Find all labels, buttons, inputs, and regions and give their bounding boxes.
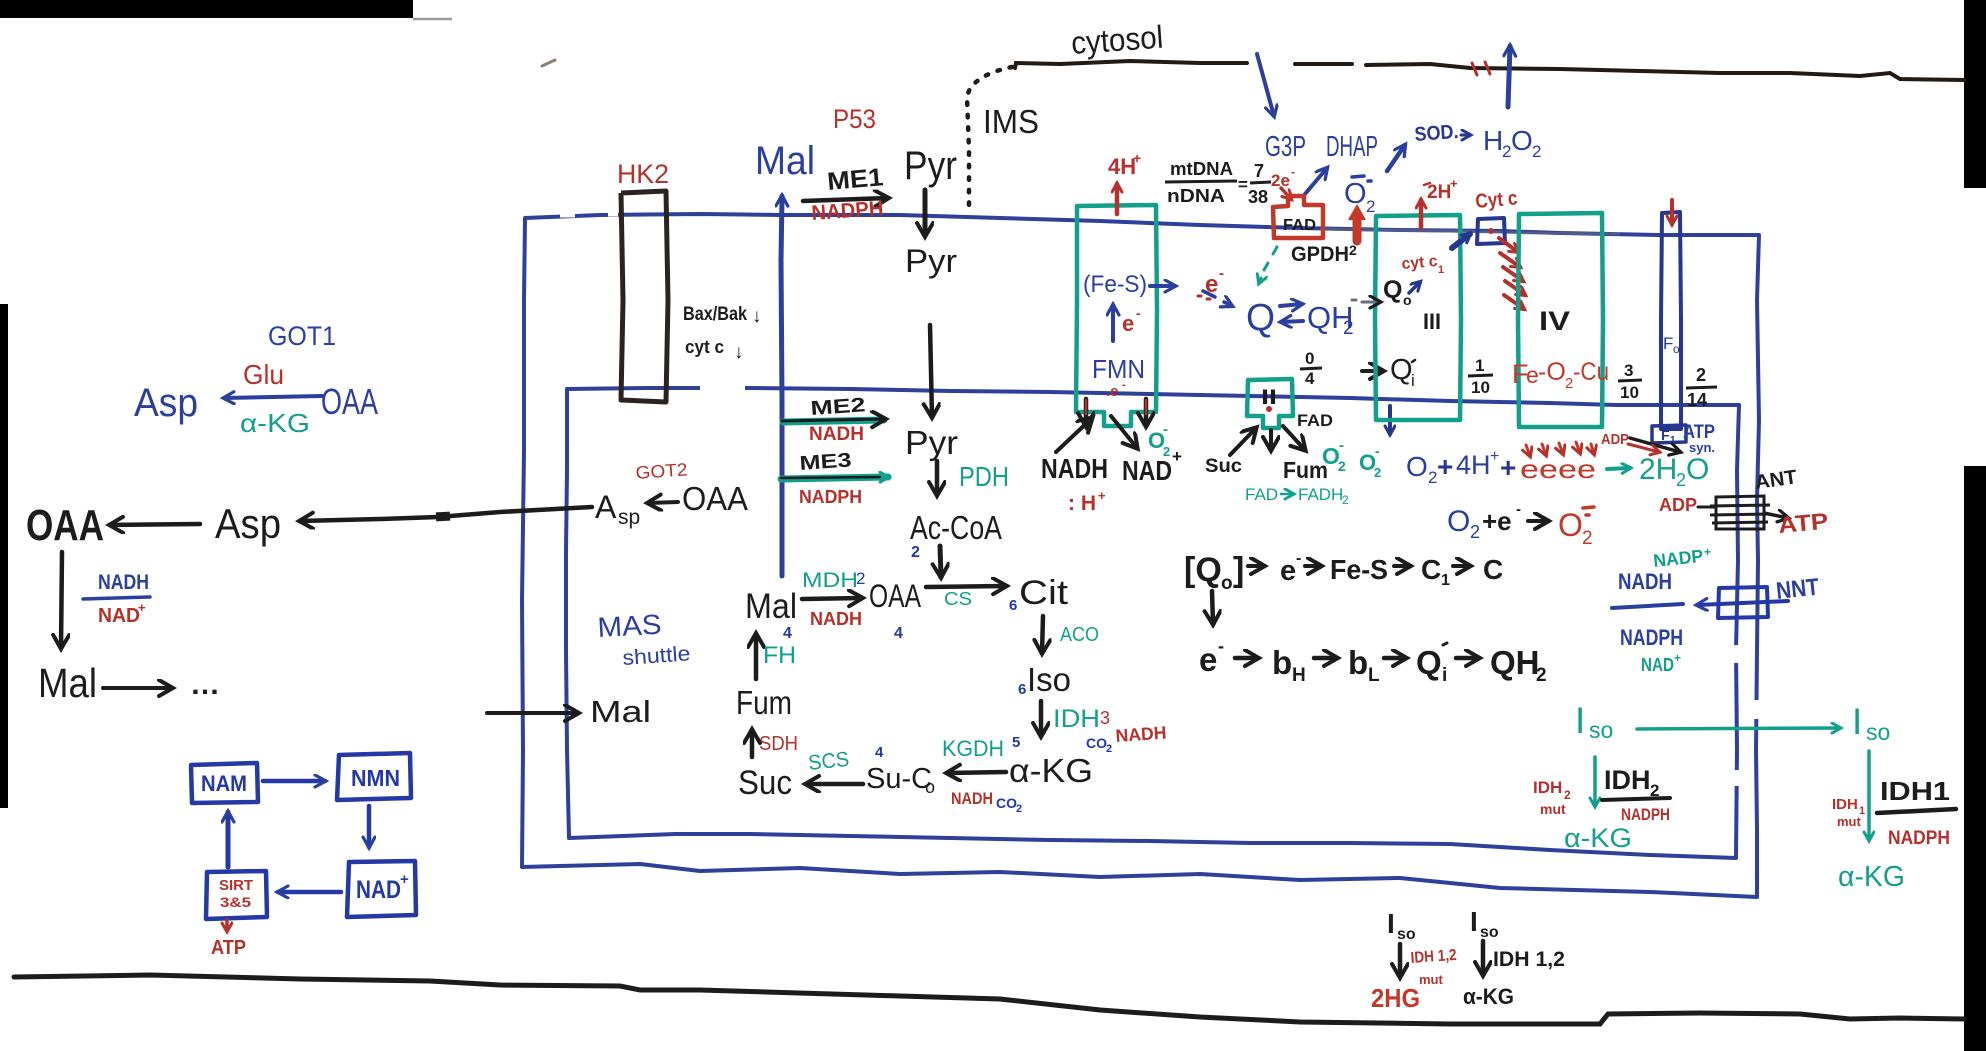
svg-text:2: 2 xyxy=(1536,665,1547,686)
svg-text:α-KG: α-KG xyxy=(1564,823,1632,853)
NAM box xyxy=(191,763,258,803)
svg-text:SDH: SDH xyxy=(759,733,798,755)
svg-text:+: + xyxy=(1450,176,1458,191)
svg-text:-: - xyxy=(1218,636,1224,656)
svg-text:2: 2 xyxy=(1696,365,1706,385)
IDH1 divider xyxy=(1877,809,1956,813)
svg-text:Pyr: Pyr xyxy=(904,144,957,188)
svg-text:nDNA: nDNA xyxy=(1167,186,1225,206)
ME1 arrow xyxy=(803,198,888,201)
svg-text:2H: 2H xyxy=(1427,182,1451,203)
svg-text:I: I xyxy=(1852,701,1862,742)
svg-text:Fum: Fum xyxy=(736,684,792,721)
svg-text:]: ] xyxy=(1233,551,1244,589)
svg-text:38: 38 xyxy=(1248,187,1268,207)
svg-text:IDH 1,2: IDH 1,2 xyxy=(1493,948,1565,971)
svg-text:1: 1 xyxy=(1475,356,1484,375)
NNT arrow xyxy=(1697,601,1788,605)
svg-text:NADPH: NADPH xyxy=(1888,828,1950,849)
svg-text:IV: IV xyxy=(1539,306,1570,336)
svg-text:NADH: NADH xyxy=(951,789,993,808)
inner blue membrane (IMM inner leaflet) xyxy=(566,388,1739,858)
svg-text:OAA: OAA xyxy=(321,381,378,422)
svg-text:e: e xyxy=(1199,641,1217,678)
svg-text:3&5: 3&5 xyxy=(220,894,251,910)
[Qo] electron chain xyxy=(1184,550,1503,594)
black crop bar left edge xyxy=(0,304,8,808)
gray smear on membrane line xyxy=(1320,229,1620,234)
svg-text:2: 2 xyxy=(1338,458,1346,474)
svg-text:NADPH: NADPH xyxy=(1620,625,1683,650)
svg-text:2: 2 xyxy=(911,544,920,561)
red arrow 2e- to box xyxy=(1281,188,1291,199)
svg-text:+e: +e xyxy=(1482,506,1512,536)
svg-text:Pyr: Pyr xyxy=(905,243,957,279)
mtDNA/nDNA fraction xyxy=(1165,159,1271,207)
MDH2 arrow xyxy=(802,598,862,599)
cyt c box blue xyxy=(1477,218,1505,244)
svg-text:b: b xyxy=(1348,644,1368,681)
svg-text:i: i xyxy=(1442,665,1447,686)
black crop bar right-bottom xyxy=(1964,466,1986,1051)
F1 box xyxy=(1652,425,1686,443)
svg-text:OAA: OAA xyxy=(869,578,922,614)
svg-text:4: 4 xyxy=(783,625,792,642)
svg-text:NADH: NADH xyxy=(810,609,862,629)
blue arrow GPDH to DHAP xyxy=(1305,168,1327,194)
svg-text:Asp: Asp xyxy=(134,381,198,425)
svg-text:+: + xyxy=(1674,651,1681,665)
svg-text:NAD: NAD xyxy=(98,605,140,627)
svg-text:CO: CO xyxy=(1086,735,1107,751)
NADH arrows into complex I xyxy=(1056,418,1092,452)
svg-text:↓: ↓ xyxy=(752,306,762,327)
NADH underline xyxy=(1612,604,1683,608)
arrow Mal to dots xyxy=(103,686,172,690)
white erase gaps on membrane xyxy=(700,386,745,391)
svg-text:=: = xyxy=(1238,175,1248,194)
svg-text:HK2: HK2 xyxy=(617,159,669,189)
HK2 porin box xyxy=(621,191,668,402)
red electron arrows cyt c to IV xyxy=(1499,238,1525,309)
svg-text:[Q: [Q xyxy=(1184,551,1222,589)
svg-text:FAD: FAD xyxy=(1245,485,1278,504)
ME3 arrow teal xyxy=(781,477,888,479)
svg-text:ME1: ME1 xyxy=(826,163,884,196)
svg-text:cyt c: cyt c xyxy=(1401,253,1438,273)
svg-text:Suc: Suc xyxy=(738,764,792,802)
svg-text:Iso: Iso xyxy=(1027,661,1071,698)
arrow II to Fum xyxy=(1283,426,1305,450)
svg-text:2: 2 xyxy=(1366,197,1375,216)
svg-text:2: 2 xyxy=(1470,522,1480,542)
svg-text:+: + xyxy=(1437,451,1453,482)
svg-text:-: - xyxy=(1291,165,1295,179)
blue arrow cytosol to G3P xyxy=(1257,54,1274,116)
svg-text:2: 2 xyxy=(1532,142,1541,161)
arrow Pyr through OMM xyxy=(923,190,928,236)
arrow NMN to NAD+ xyxy=(367,806,372,847)
svg-text:2: 2 xyxy=(1106,743,1112,755)
svg-text:o: o xyxy=(1221,573,1233,594)
svg-text:F: F xyxy=(1663,334,1673,353)
PDH arrow xyxy=(935,461,940,495)
svg-text:GPDH: GPDH xyxy=(1291,243,1349,266)
svg-text:(Fe-S): (Fe-S) xyxy=(1083,271,1147,298)
svg-text:KGDH: KGDH xyxy=(942,736,1004,761)
svg-text:10: 10 xyxy=(1471,378,1490,397)
svg-text:so: so xyxy=(1480,924,1499,941)
svg-text:ACO: ACO xyxy=(1060,624,1099,646)
svg-text:FH: FH xyxy=(763,642,796,669)
black crop bar top-left xyxy=(0,0,413,18)
arrow to Qi (III) xyxy=(1362,369,1383,373)
svg-text:-: - xyxy=(1516,501,1521,518)
svg-text:FAD: FAD xyxy=(1297,411,1333,430)
outer blue membrane (IMM outer leaflet) xyxy=(522,214,1759,897)
erase gaps on right membrane verticals xyxy=(1736,645,1757,786)
svg-text:↓: ↓ xyxy=(734,342,744,363)
svg-text:mtDNA: mtDNA xyxy=(1170,159,1233,179)
Q/QH2 double arrows xyxy=(1280,304,1302,306)
NAD+ box xyxy=(347,861,416,917)
svg-text:GOT2: GOT2 xyxy=(635,459,688,483)
svg-text:+: + xyxy=(400,871,409,888)
svg-text:I: I xyxy=(1470,906,1478,937)
down arrow from [Qo] xyxy=(1212,591,1213,624)
2/14 fraction xyxy=(1686,365,1717,410)
svg-text:CO: CO xyxy=(996,795,1017,811)
svg-text:MAS: MAS xyxy=(597,609,663,643)
svg-text:O: O xyxy=(1344,178,1367,210)
wire blob on long arrow xyxy=(436,512,450,522)
svg-text:2: 2 xyxy=(1343,318,1354,339)
svg-text:1: 1 xyxy=(1670,435,1676,446)
long arrow Pyr to matrix xyxy=(930,325,932,417)
svg-text:IMS: IMS xyxy=(983,103,1039,140)
ATP synthase Fo channel xyxy=(1661,212,1681,429)
svg-text:-: - xyxy=(1296,550,1301,567)
svg-text:α-KG: α-KG xyxy=(1009,752,1093,789)
svg-text:NAD: NAD xyxy=(356,876,401,904)
svg-text:α-KG: α-KG xyxy=(1838,861,1905,893)
svg-text:IDH: IDH xyxy=(1533,778,1562,797)
svg-text:6: 6 xyxy=(1009,597,1017,614)
O2 + e- to O2- equation xyxy=(1447,501,1594,549)
svg-text:-: - xyxy=(1163,421,1168,438)
arrow AcCoA down xyxy=(940,546,941,577)
svg-text:5: 5 xyxy=(1012,734,1020,751)
FH arrow xyxy=(754,634,759,679)
svg-text:OAA: OAA xyxy=(26,501,104,550)
IDH2 divider xyxy=(1602,798,1670,800)
black arrow ADP to F1 xyxy=(1630,438,1680,452)
svg-text:NMN: NMN xyxy=(351,765,400,791)
complex I box xyxy=(1076,205,1157,426)
svg-text:2: 2 xyxy=(1374,465,1381,480)
arrow NAM to NMN xyxy=(263,779,325,784)
svg-text:Asp: Asp xyxy=(215,500,281,547)
CS arrow OAA to Cit xyxy=(926,586,1006,587)
svg-text:QH: QH xyxy=(1490,644,1540,681)
svg-text:-: - xyxy=(1122,379,1126,391)
O2 + 4H+ + eeee equation xyxy=(1406,442,1709,490)
svg-text:CS: CS xyxy=(944,589,972,609)
blue thick arrow into cyt c xyxy=(1452,234,1470,248)
arrow OAA to Asp (GOT2) xyxy=(648,502,678,503)
svg-text:NNT: NNT xyxy=(1775,574,1821,605)
svg-text:-: - xyxy=(1136,305,1141,321)
svg-text:2: 2 xyxy=(1342,493,1349,507)
long arrow from matrix Asp to left Asp xyxy=(300,507,592,521)
svg-text:so: so xyxy=(1589,717,1613,743)
svg-text:3: 3 xyxy=(1100,708,1110,728)
cyt c down label xyxy=(685,337,744,363)
svg-text:e: e xyxy=(1280,555,1296,587)
svg-text:OAA: OAA xyxy=(682,480,748,517)
svg-text:IDH1: IDH1 xyxy=(1880,776,1950,806)
svg-text:L: L xyxy=(1368,665,1380,686)
svg-text:sp: sp xyxy=(618,506,640,529)
1/10 fraction xyxy=(1468,356,1493,397)
svg-text:NADH: NADH xyxy=(1115,722,1167,746)
svg-text:Su-C: Su-C xyxy=(866,763,932,795)
4H+ red up arrow xyxy=(1115,184,1120,214)
svg-text:b: b xyxy=(1272,644,1292,681)
svg-text:+: + xyxy=(1500,452,1516,483)
svg-text:3: 3 xyxy=(1624,361,1633,380)
svg-text:O: O xyxy=(1406,451,1428,482)
red proton ticks on OMM line xyxy=(1472,62,1490,75)
ACO arrow xyxy=(1042,616,1043,653)
svg-text:Glu: Glu xyxy=(243,359,284,390)
blue arrow O2- to SOD xyxy=(1387,145,1405,171)
complex III box xyxy=(1375,215,1461,420)
NMN box xyxy=(337,753,411,800)
svg-text:.e: .e xyxy=(1106,383,1119,400)
svg-text:: H: : H xyxy=(1068,492,1096,515)
svg-text:o: o xyxy=(1673,342,1680,356)
arrow Iso to aKG (bottom) xyxy=(1481,941,1486,975)
svg-text:-Cu: -Cu xyxy=(1573,358,1609,386)
svg-text:Bax/Bak: Bax/Bak xyxy=(683,304,747,325)
SCS arrow xyxy=(806,782,863,787)
svg-text:O: O xyxy=(1686,453,1709,486)
svg-text:so: so xyxy=(1397,926,1416,943)
svg-text:H: H xyxy=(1483,125,1503,156)
GOT1 arrow OAA to Asp xyxy=(224,396,322,398)
big blue up arrow to cytosol xyxy=(1508,46,1510,107)
svg-text:ADP: ADP xyxy=(1659,495,1697,515)
svg-text:mut: mut xyxy=(1540,801,1566,817)
thick red up arrow (O2-) xyxy=(1353,215,1362,241)
svg-text:+: + xyxy=(138,600,146,615)
svg-text:SIRT: SIRT xyxy=(219,877,253,894)
svg-text:4: 4 xyxy=(875,744,884,761)
arrow NAD+ to SIRT xyxy=(278,890,341,895)
SDH arrow xyxy=(750,730,755,757)
svg-text:cyt c: cyt c xyxy=(685,337,724,357)
gray dashes into Qo xyxy=(1352,300,1380,302)
svg-text:Suc: Suc xyxy=(1205,456,1242,477)
svg-text:NADPH: NADPH xyxy=(799,487,862,507)
teal arrow Iso to aKG (left branch) xyxy=(1593,757,1597,806)
Mal vertical arrow xyxy=(781,196,782,576)
svg-text:-O: -O xyxy=(1538,358,1566,386)
red arrow into ATP synthase xyxy=(1670,200,1674,224)
complex II box xyxy=(1247,379,1293,428)
svg-text:GOT1: GOT1 xyxy=(268,321,336,351)
dashed blue arrow e- to Q xyxy=(1203,291,1232,306)
svg-text:2HG: 2HG xyxy=(1371,983,1420,1013)
svg-text:ME3: ME3 xyxy=(799,449,852,475)
svg-text:F: F xyxy=(1661,427,1670,443)
SIRT 3&5 box xyxy=(206,871,267,919)
arrow SIRT to NAM xyxy=(226,812,231,867)
svg-text:NADH: NADH xyxy=(1041,453,1108,484)
up arrow inside complex I xyxy=(1111,305,1115,341)
black crop bar right-top xyxy=(1964,0,1986,188)
svg-text:mut: mut xyxy=(1419,972,1444,987)
red dot (cyt c) xyxy=(1488,228,1494,234)
svg-text:1: 1 xyxy=(1438,264,1444,276)
arrow OAA down to Mal xyxy=(61,552,62,648)
svg-text:Q: Q xyxy=(1416,644,1442,681)
SOD small arrow xyxy=(1461,134,1470,137)
svg-text:2H: 2H xyxy=(1639,453,1677,486)
complex IV box xyxy=(1518,213,1603,427)
svg-text:o: o xyxy=(1403,292,1412,308)
svg-text:2: 2 xyxy=(856,569,865,588)
svg-text:e: e xyxy=(1122,311,1134,336)
svg-text:NAD: NAD xyxy=(1122,455,1172,486)
svg-text:10: 10 xyxy=(1620,383,1639,402)
0/4 fraction xyxy=(1300,349,1322,388)
svg-text:IDH: IDH xyxy=(1604,765,1651,795)
svg-text:so: so xyxy=(1866,719,1890,745)
down arrow II xyxy=(1269,430,1273,450)
svg-text:SCS: SCS xyxy=(807,748,850,775)
svg-text:ADP: ADP xyxy=(1601,431,1629,448)
teal arrow Iso to aKG (right branch) xyxy=(1867,751,1871,840)
svg-text:14: 14 xyxy=(1687,390,1707,410)
svg-text:II: II xyxy=(1261,386,1277,409)
svg-text:4: 4 xyxy=(1305,369,1315,388)
svg-text:C: C xyxy=(1483,554,1503,585)
red dot (complex II) xyxy=(1266,406,1272,412)
svg-text:H: H xyxy=(1292,665,1306,686)
svg-text:ATP: ATP xyxy=(211,937,246,959)
red arrow ADP to F1 xyxy=(1628,444,1659,452)
svg-text:ATP: ATP xyxy=(1777,508,1829,538)
svg-text:+: + xyxy=(1490,448,1499,465)
arrow ANT to ATP xyxy=(1764,513,1788,518)
svg-text:-: - xyxy=(1339,437,1344,454)
IMS dotted brace xyxy=(967,67,1012,210)
svg-text:IDH: IDH xyxy=(1832,796,1858,813)
svg-text:MDH: MDH xyxy=(802,569,858,592)
svg-text:Q: Q xyxy=(1383,276,1402,304)
svg-text:2: 2 xyxy=(1582,528,1593,549)
svg-text:Mal: Mal xyxy=(745,587,797,626)
svg-text:4H: 4H xyxy=(1456,450,1491,480)
svg-text:4H: 4H xyxy=(1108,154,1136,179)
svg-text:ME2: ME2 xyxy=(810,394,866,420)
svg-text:mut: mut xyxy=(1837,814,1862,829)
svg-text:O: O xyxy=(1558,507,1583,543)
3/10 fraction xyxy=(1618,361,1642,402)
svg-text:2: 2 xyxy=(1163,444,1170,459)
dark red arrows at I bottom xyxy=(1084,399,1089,426)
svg-text:I: I xyxy=(1575,700,1585,741)
svg-text:NAD: NAD xyxy=(1641,655,1674,675)
svg-text:…: … xyxy=(190,668,220,701)
svg-text:e: e xyxy=(1526,362,1539,388)
svg-text:0: 0 xyxy=(1305,349,1314,368)
svg-text:shuttle: shuttle xyxy=(622,642,691,670)
small gray speck xyxy=(542,60,555,66)
svg-text:4: 4 xyxy=(894,625,903,642)
arrow into matrix Mal xyxy=(487,711,578,715)
NNT box xyxy=(1718,587,1768,618)
NADH/NAD divider xyxy=(83,597,150,599)
svg-text:cytosol: cytosol xyxy=(1070,19,1164,61)
svg-text:+: + xyxy=(1704,545,1711,559)
IDH arrow xyxy=(1039,701,1044,736)
svg-text:+: + xyxy=(1098,488,1106,503)
svg-text:Mal: Mal xyxy=(590,694,651,729)
Iso teal arrow across membrane xyxy=(1637,728,1840,729)
svg-text:NADH: NADH xyxy=(809,424,864,445)
dots under e- xyxy=(1198,296,1210,299)
svg-text:o: o xyxy=(925,777,935,797)
Suc arrow to II xyxy=(1230,428,1256,455)
svg-text:2: 2 xyxy=(1016,803,1022,815)
2H+ red (III) xyxy=(1419,200,1424,228)
svg-text:FMN: FMN xyxy=(1092,354,1145,384)
svg-text:DHAP: DHAP xyxy=(1326,131,1378,163)
svg-text:O: O xyxy=(1511,125,1533,156)
svg-text:O: O xyxy=(1447,505,1470,538)
svg-text:G3P: G3P xyxy=(1265,131,1306,163)
Bax/Bak label xyxy=(683,304,762,327)
svg-text:2: 2 xyxy=(1676,470,1686,490)
red arrow SIRT to ATP xyxy=(225,920,229,931)
svg-text:Mal: Mal xyxy=(755,139,815,183)
GPDH2 red box xyxy=(1273,196,1323,238)
svg-text:Pyr: Pyr xyxy=(905,424,958,461)
ME2 arrow teal+black xyxy=(782,419,885,422)
svg-text:FAD: FAD xyxy=(1283,217,1316,234)
svg-text:Cit: Cit xyxy=(1019,574,1069,612)
navy down arrow under III xyxy=(1388,406,1392,434)
svg-text:NADH: NADH xyxy=(1618,569,1672,594)
svg-text:NADPH: NADPH xyxy=(1621,805,1670,824)
svg-text:Q: Q xyxy=(1390,354,1413,386)
svg-text:C: C xyxy=(1421,554,1441,585)
svg-text:P53: P53 xyxy=(833,104,876,134)
svg-text:-: - xyxy=(1375,443,1380,459)
ANT box xyxy=(1710,496,1770,529)
svg-text:-: - xyxy=(1219,265,1224,282)
svg-text:I: I xyxy=(1387,908,1395,939)
svg-text:i: i xyxy=(1411,371,1415,390)
svg-text:IDH: IDH xyxy=(1053,705,1100,733)
arrow Iso to 2HG xyxy=(1398,944,1403,977)
svg-text:+: + xyxy=(1133,150,1141,166)
svg-text:NADH: NADH xyxy=(98,571,149,594)
KGDH arrow xyxy=(947,772,1006,773)
